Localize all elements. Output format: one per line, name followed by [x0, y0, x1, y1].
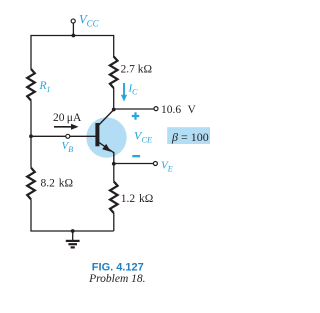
resistor 1.2k — [110, 182, 118, 214]
wire: left branch upper — [30, 35, 32, 69]
junction: top rail / Vcc — [72, 34, 76, 38]
terminal VB — [66, 134, 70, 138]
svg-text:FIG. 4.127: FIG. 4.127 — [92, 261, 144, 273]
wire: emitter node to 1.2k — [113, 164, 115, 182]
terminal 10.6V — [154, 107, 158, 111]
resistor 2.7k — [110, 57, 118, 89]
svg-text:VCC: VCC — [79, 13, 100, 29]
resistor 8.2k — [27, 168, 35, 200]
svg-text:VB: VB — [62, 140, 74, 154]
svg-text:1.2 kΩ: 1.2 kΩ — [121, 193, 154, 205]
transistor Q1 base bar — [95, 123, 99, 146]
wire: left branch lower — [30, 199, 32, 231]
base current arrow — [54, 124, 79, 130]
wire: base — [31, 135, 96, 137]
wire: left branch middle — [30, 101, 32, 168]
wire: emitter node to VE terminal — [114, 163, 154, 165]
transistor Q1 collector lead — [98, 110, 114, 126]
svg-text:8.2 kΩ: 8.2 kΩ — [41, 178, 74, 190]
junction: ground node — [71, 229, 75, 233]
wire: right branch upper — [113, 35, 115, 57]
svg-text:2.7 kΩ: 2.7 kΩ — [121, 64, 153, 76]
svg-text:β = 100: β = 100 — [171, 130, 209, 144]
transistor Q1 body — [86, 117, 126, 157]
wire: bottom rail — [30, 230, 113, 232]
transistor Q1 emitter lead — [98, 142, 114, 153]
junction: emitter node — [112, 162, 116, 166]
transistor Q1 emitter arrowhead — [102, 144, 111, 152]
wire: emitter to emitter node — [113, 152, 115, 164]
terminal Vcc — [71, 19, 75, 23]
wire: resistor to collector node — [113, 88, 115, 110]
terminal VE — [153, 162, 157, 166]
junction: base node on left branch — [29, 134, 33, 138]
svg-text:R1: R1 — [39, 80, 51, 94]
svg-text:10.6V: 10.6V — [161, 104, 197, 116]
wire: collector node to 10.6V terminal — [114, 108, 154, 110]
polarity minus VCE — [132, 155, 140, 157]
svg-text:VCE: VCE — [134, 129, 153, 145]
svg-text:Problem 18.: Problem 18. — [88, 273, 145, 285]
svg-text:VE: VE — [161, 160, 173, 174]
wire: Vcc stub — [72, 23, 74, 36]
wire: top rail — [31, 35, 114, 37]
wire: 1.2k to bottom rail — [113, 213, 115, 231]
beta box — [167, 127, 210, 144]
polarity plus VCE — [132, 112, 139, 119]
svg-text:20 μA: 20 μA — [53, 112, 82, 124]
svg-text:IC: IC — [128, 83, 139, 97]
ground — [66, 231, 80, 247]
resistor R1 — [27, 69, 35, 101]
junction: collector node — [112, 108, 116, 112]
current arrow Ic — [121, 83, 127, 102]
